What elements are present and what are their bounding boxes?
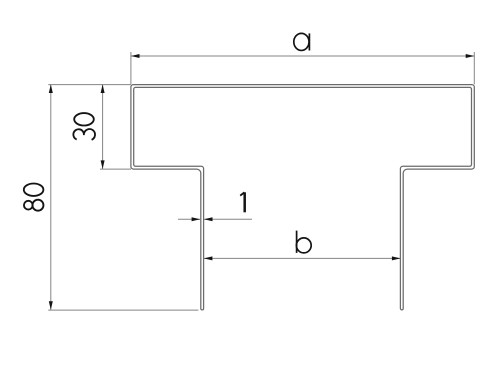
dimension 30: bottom arrow	[101, 160, 105, 169]
dimension b: left arrow	[204, 256, 213, 260]
dimension a: extension line right	[473, 52, 475, 84]
label 1	[240, 192, 245, 212]
dimension a: extension line left	[130, 52, 132, 84]
dimension 30: bottom extension line	[100, 168, 131, 170]
dimension 80: bottom extension line	[48, 309, 198, 311]
dimension 80: top extension line	[48, 84, 131, 86]
dimension 1: right line	[204, 218, 252, 220]
dimension a: right arrow	[466, 54, 475, 58]
dimension 1: left arrow (points right)	[192, 217, 201, 221]
label 30 (rotated)	[73, 113, 95, 140]
label b	[296, 231, 311, 253]
dimension 80: bottom arrow	[49, 301, 53, 310]
label 80 (rotated)	[24, 184, 44, 211]
dimension a: left arrow	[131, 54, 140, 58]
dimension 1: right arrow (points left)	[204, 217, 213, 221]
profile outline (T cover cross-section, 1mm sheet)	[131, 85, 474, 310]
dimension b: dimension line	[204, 257, 401, 259]
dimension 1: left line	[178, 218, 200, 220]
dimension a: dimension line	[131, 55, 474, 57]
dimension 30: top arrow	[101, 84, 105, 93]
dimension 80: dimension line	[50, 84, 52, 310]
label a	[294, 33, 310, 50]
dimension 30: dimension line	[102, 84, 104, 169]
dimension b: right arrow	[392, 256, 401, 260]
dimension 80: top arrow	[49, 84, 53, 93]
